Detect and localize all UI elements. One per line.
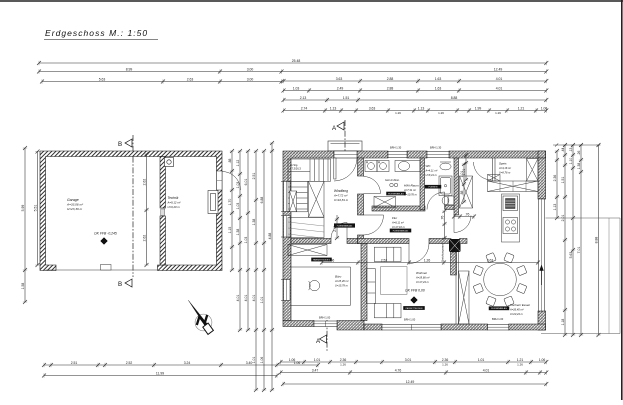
room label technik text: [167, 196, 182, 209]
dimension col right 2.36: [555, 149, 559, 220]
svg-text:1.13: 1.13: [418, 107, 425, 111]
svg-text:BRH 1.30: BRH 1.30: [390, 146, 402, 150]
kitchen island outline: [502, 194, 520, 242]
dimension col mid 4.88: [270, 141, 274, 392]
svg-text:BRH 1.00: BRH 1.00: [492, 317, 504, 321]
svg-text:2.36: 2.36: [442, 358, 449, 362]
stair inner rail rect with X: [290, 191, 297, 212]
svg-text:5.63: 5.63: [569, 252, 573, 259]
svg-text:1.38: 1.38: [236, 229, 240, 236]
svg-text:3.63: 3.63: [487, 259, 494, 263]
terrace outline right side: [541, 218, 620, 334]
post symbol square with circle: [165, 158, 174, 167]
door arc flur to wohnen: [409, 244, 429, 264]
svg-text:3.40: 3.40: [246, 361, 253, 365]
room label garage text: [66, 198, 84, 211]
room label buero text: [334, 275, 349, 288]
technik chimney door leaf rect: [208, 191, 218, 214]
svg-text:Erdgeschoss M.: 1:50: Erdgeschoss M.: 1:50: [45, 28, 148, 38]
washer square 1 hwr: [365, 161, 377, 172]
house exterior walls hatched: [283, 151, 546, 321]
window buero bottom wall: [314, 321, 337, 327]
dimension col mid 6.01: [246, 149, 250, 332]
svg-text:U=9,29 m: U=9,29 m: [168, 205, 181, 209]
svg-text:1.06: 1.06: [541, 107, 548, 111]
wall buero/wohnen vertical: [361, 244, 367, 321]
svg-text:17,3/26,3: 17,3/26,3: [290, 167, 301, 171]
svg-text:5.51: 5.51: [34, 205, 38, 212]
svg-text:12.49: 12.49: [494, 68, 503, 72]
dining table round: [484, 263, 517, 296]
svg-text:.76: .76: [441, 216, 445, 221]
room label speis text: [498, 162, 511, 175]
svg-text:1.21: 1.21: [517, 358, 524, 362]
svg-text:1.21: 1.21: [518, 107, 525, 111]
staircase lower flight treads: [288, 181, 308, 212]
svg-text:FLIESENBELAG: FLIESENBELAG: [491, 307, 507, 310]
svg-text:5.99: 5.99: [21, 205, 25, 212]
room label kochen text: [509, 303, 531, 316]
dimension row bottom-left segments: [42, 363, 320, 367]
dimension row bottom-right 3.47 / 4.76 / 4.01: [279, 370, 549, 374]
svg-text:A=19,66 m²: A=19,66 m²: [415, 276, 430, 280]
floor label windfang black box: [334, 223, 355, 227]
svg-text:1.99: 1.99: [475, 107, 482, 111]
level marker diamond wohnen: [411, 297, 418, 304]
dimension row bottom-right 12.49: [281, 382, 548, 386]
svg-text:1.26: 1.26: [495, 111, 501, 115]
svg-text:PARKETTBODEN: PARKETTBODEN: [406, 307, 423, 310]
svg-text:4.01: 4.01: [244, 295, 248, 302]
window stair left wall: [284, 182, 291, 212]
room label flur text: [391, 216, 406, 229]
svg-text:4.01: 4.01: [496, 77, 503, 81]
svg-text:U=10,76 m: U=10,76 m: [404, 193, 418, 197]
dimension row 8.99 / 3.00 / 12.49: [37, 69, 548, 73]
svg-text:1.06: 1.06: [260, 357, 264, 364]
svg-text:U=17,24 m: U=17,24 m: [416, 280, 430, 284]
svg-text:1.70: 1.70: [228, 199, 232, 206]
wall windfang/buero horizontal with door gap: [291, 239, 358, 244]
dimension row bottom-left 11.99: [42, 373, 279, 377]
svg-text:4.88: 4.88: [268, 233, 272, 240]
dimension row house openings: [282, 108, 549, 112]
section marker B bottom: [118, 279, 132, 288]
svg-text:4.01: 4.01: [252, 295, 256, 302]
staircase upper flight treads: [288, 159, 331, 181]
north arrow: [188, 300, 213, 334]
dimension row house 3.63 / 2.88 / 1.63 / 4.01: [282, 79, 549, 83]
rug wohnen: [381, 267, 408, 295]
dimension col right 7.01: [579, 143, 583, 337]
dimension interior windfang door 2.01: [335, 215, 339, 240]
wall hwr/flur horizontal: [372, 206, 425, 211]
svg-text:.88: .88: [228, 159, 232, 164]
svg-text:7.01: 7.01: [577, 247, 581, 254]
dimension col right 5.63: [571, 143, 575, 337]
double circle symbol hwr: [390, 183, 398, 187]
svg-text:1.12: 1.12: [236, 160, 240, 167]
floor label hwr black box: [386, 192, 406, 196]
svg-text:A=26,40 m²: A=26,40 m²: [509, 308, 524, 312]
svg-text:A=9,12 m²: A=9,12 m²: [167, 201, 182, 205]
text gst abst hwr: [385, 178, 400, 182]
svg-text:2.36: 2.36: [340, 358, 347, 362]
svg-text:2.88: 2.88: [387, 77, 394, 81]
stair landing hatch area: [288, 218, 324, 238]
section marker A bottom: [316, 335, 327, 345]
kitchen fridge hatched block: [503, 196, 518, 211]
room label wohnen text: [415, 271, 430, 284]
kitchen upper run divisions: [500, 181, 526, 192]
svg-text:2.52: 2.52: [126, 361, 133, 365]
shelf speis tall x-hatched: [527, 159, 539, 182]
tv cabinet wohnen/kochen x-hatched: [459, 271, 470, 324]
svg-text:FLIESEN: FLIESEN: [429, 187, 438, 189]
svg-text:1.51: 1.51: [343, 96, 350, 100]
shelf band speis/kitchen x-hatched: [488, 181, 539, 192]
svg-text:1.03: 1.03: [293, 87, 300, 91]
kitchen tall cabinet right of wc x-hatched: [460, 176, 473, 208]
svg-text:6.88: 6.88: [260, 197, 264, 204]
svg-text:12.49: 12.49: [406, 380, 415, 384]
dimension interior flur 76: [442, 209, 446, 240]
svg-text:U=8,76 m: U=8,76 m: [499, 171, 511, 175]
svg-text:1.58: 1.58: [21, 283, 25, 290]
svg-text:4.01: 4.01: [496, 87, 503, 91]
svg-text:HWi-Raum: HWi-Raum: [404, 184, 419, 188]
entrance door frame top wall: [334, 151, 357, 158]
entrance door swing arc windfang: [334, 158, 357, 181]
svg-text:1.03: 1.03: [236, 203, 240, 210]
dimension row total width 25.48: [37, 61, 548, 65]
house bottom wall east segment hatched: [364, 324, 546, 330]
svg-text:A=4,16 m²: A=4,16 m²: [498, 166, 511, 170]
svg-text:8.88: 8.88: [595, 237, 599, 244]
svg-text:3.47: 3.47: [312, 369, 319, 373]
sheet border top: [0, 0, 623, 2]
svg-text:1.03: 1.03: [244, 237, 248, 244]
chimney black block: [449, 239, 461, 252]
partition wohnen/kochen thin: [456, 248, 459, 325]
svg-text:2.62: 2.62: [143, 179, 147, 186]
dining chairs 8 around table: [473, 253, 527, 307]
kitchen stove 4 burners: [503, 218, 518, 234]
sheet border right: [621, 0, 623, 400]
svg-text:3.00: 3.00: [247, 68, 254, 72]
dimension row left 5.63 / 2.63 / 3.00: [40, 79, 284, 83]
corner tick marks top right: [553, 143, 600, 146]
wc shower tray: [439, 176, 452, 196]
svg-text:1.06: 1.06: [289, 358, 296, 362]
svg-text:Büro: Büro: [335, 275, 342, 279]
wall stub right of chimney: [460, 239, 468, 244]
floor label wohnen black box: [403, 306, 425, 310]
window windfang left wall: [284, 216, 291, 238]
speis partition wall with door: [493, 158, 496, 181]
svg-text:A=4,11 m²: A=4,11 m²: [425, 169, 438, 173]
section line A bottom: [326, 320, 328, 352]
garage door post marker: [101, 265, 112, 271]
svg-text:U=23,24 m: U=23,24 m: [510, 312, 524, 316]
svg-text:A=33,06 m²: A=33,06 m²: [66, 203, 84, 207]
room label windfang text: [333, 189, 349, 202]
svg-text:U=17,16 m: U=17,16 m: [392, 225, 406, 229]
garage outer walls hatched: [40, 151, 222, 271]
dimension row house 2.13 / 1.51 / 8.88: [282, 98, 549, 102]
svg-text:1.03: 1.03: [236, 182, 240, 189]
svg-text:1.38: 1.38: [577, 163, 581, 170]
svg-text:1.26: 1.26: [395, 111, 401, 115]
svg-text:2.62: 2.62: [143, 235, 147, 242]
svg-text:25.48: 25.48: [292, 59, 301, 63]
slider direction arrow: [540, 266, 544, 286]
floor label flur black box: [390, 229, 412, 233]
office chair buero: [309, 280, 320, 290]
wall garage/technik with door gap: [160, 157, 166, 266]
svg-text:1.26: 1.26: [340, 363, 346, 367]
level marker diamond garage: [101, 238, 108, 245]
svg-text:6.01: 6.01: [244, 179, 248, 186]
wall flur/wohnen horizontal with door gap: [358, 239, 452, 244]
svg-text:FLIESENBELAG: FLIESENBELAG: [388, 192, 404, 195]
window kochen bottom wall: [488, 325, 509, 331]
svg-text:WC: WC: [426, 164, 432, 168]
svg-text:U=8,41 m: U=8,41 m: [426, 173, 438, 177]
svg-text:Einrichtungswand: Einrichtungswand: [442, 242, 445, 262]
room label wc text: [425, 164, 438, 177]
section marker A top: [332, 122, 344, 132]
wall wc bottom with door gap: [445, 205, 454, 210]
dimension interior kochen door 76: [452, 214, 476, 218]
washer square 2 hwr: [377, 161, 389, 172]
svg-text:OK FFB 0,00: OK FFB 0,00: [405, 289, 425, 293]
svg-text:A=7,72 m²: A=7,72 m²: [333, 194, 348, 198]
svg-text:1.63: 1.63: [435, 87, 442, 91]
door arc hwr: [364, 177, 381, 194]
svg-text:A=7,31 m²: A=7,31 m²: [403, 188, 416, 192]
svg-text:OK FFB -0,245: OK FFB -0,245: [94, 232, 117, 236]
svg-text:1.01: 1.01: [478, 358, 485, 362]
svg-text:2.51: 2.51: [252, 173, 256, 180]
technik exterior door opening east wall: [217, 171, 223, 190]
svg-text:2.51: 2.51: [71, 361, 78, 365]
svg-text:BRH 1.30: BRH 1.30: [430, 146, 442, 150]
svg-text:1.13: 1.13: [330, 107, 337, 111]
stair text 11 Stg: [290, 163, 301, 171]
svg-text:4.01: 4.01: [236, 295, 240, 302]
svg-text:U=23,39 m: U=23,39 m: [67, 207, 83, 211]
dimension interior garage 2.62/2.62: [144, 152, 148, 267]
svg-text:1.01: 1.01: [260, 297, 264, 304]
svg-text:2.88: 2.88: [387, 87, 394, 91]
dimension col left 5.99: [23, 146, 27, 304]
svg-text:BRH 1.00: BRH 1.00: [319, 316, 331, 320]
wall wc right vertical: [454, 158, 459, 215]
svg-text:5.63: 5.63: [99, 78, 106, 82]
svg-text:U=15,79 m: U=15,79 m: [335, 284, 349, 288]
svg-text:1.38: 1.38: [252, 219, 256, 226]
svg-text:2.13: 2.13: [300, 96, 307, 100]
svg-text:Technik: Technik: [168, 196, 179, 200]
svg-text:3.00: 3.00: [247, 78, 254, 82]
svg-text:FLIESENBELAG: FLIESENBELAG: [393, 229, 409, 232]
section line A top: [344, 120, 346, 158]
dimension col right 2.01: [563, 143, 567, 337]
svg-text:3.63: 3.63: [369, 107, 376, 111]
svg-text:1.26: 1.26: [442, 363, 448, 367]
floor label kochen black box: [489, 306, 510, 310]
sofa wohnen L-shape: [367, 269, 402, 318]
window wc top wall: [427, 152, 449, 158]
svg-text:11.99: 11.99: [156, 372, 164, 376]
window sill marks left wall: [281, 182, 284, 301]
window wohnen bottom wall wide: [382, 325, 441, 331]
svg-text:1.15: 1.15: [228, 227, 232, 234]
svg-text:BRH 1.00: BRH 1.00: [404, 318, 416, 322]
window buero left wall: [284, 280, 291, 301]
svg-text:3.24: 3.24: [184, 361, 191, 365]
svg-text:2.01: 2.01: [333, 225, 337, 232]
sink circle hwr: [395, 161, 420, 172]
svg-text:8.88: 8.88: [451, 96, 458, 100]
dimension col mid 6.88: [262, 149, 266, 392]
svg-text:1.06: 1.06: [539, 358, 546, 362]
svg-text:.26: .26: [577, 151, 581, 156]
partition hatched band below chimney: [451, 252, 457, 275]
section line B vertical through garage: [132, 135, 134, 277]
dimension col right 8.88: [596, 143, 600, 337]
door arc flur to kochen: [454, 216, 471, 233]
svg-text:FLIESENBELAG: FLIESENBELAG: [337, 224, 353, 227]
kitchen cabinet upper left x-hatched: [488, 175, 501, 182]
door arc speis: [474, 162, 492, 180]
room label hwr text: [403, 184, 419, 197]
terrace slider door right wall: [539, 199, 545, 311]
wc toilet: [442, 196, 454, 205]
svg-text:Windfang: Windfang: [334, 189, 348, 193]
svg-text:2.49: 2.49: [337, 87, 344, 91]
dimension row bottom-right segments: [279, 360, 549, 364]
staircase lower zone cross: [309, 181, 325, 217]
svg-text:1.06: 1.06: [328, 259, 335, 263]
dimension col left 5.51: [35, 150, 39, 268]
garage door opening bottom edge: [46, 269, 159, 271]
svg-text:1.51: 1.51: [561, 177, 565, 184]
svg-text:.44: .44: [561, 148, 565, 153]
dimension col mid 1.15: [230, 149, 234, 272]
dimension interior speis door 1.01: [464, 153, 468, 182]
svg-text:.88: .88: [460, 191, 464, 196]
svg-text:U=10,81 m: U=10,81 m: [334, 198, 349, 202]
svg-text:8.99: 8.99: [126, 68, 133, 72]
svg-text:4.01: 4.01: [483, 369, 490, 373]
svg-text:3.63: 3.63: [336, 77, 343, 81]
svg-text:1.01: 1.01: [252, 357, 256, 364]
svg-text:B: B: [118, 281, 122, 288]
svg-text:Gst/ A=Abst.: Gst/ A=Abst.: [385, 178, 400, 182]
svg-text:1.13: 1.13: [553, 204, 557, 211]
wc sink oval: [440, 162, 451, 170]
wall windfang/hwr vertical with door gaps: [358, 158, 364, 244]
door arc windfang to flur: [364, 215, 384, 235]
svg-text:1.01: 1.01: [462, 169, 466, 176]
house bottom wall west segment hatched: [283, 321, 364, 331]
dimension col mid 2.51: [254, 149, 258, 392]
floor label buero black box: [311, 258, 332, 262]
svg-text:2.63: 2.63: [187, 78, 194, 82]
svg-text:1.26: 1.26: [438, 111, 444, 115]
svg-text:2.52: 2.52: [381, 259, 388, 263]
entrance porch outline: [328, 141, 362, 151]
svg-text:2.36: 2.36: [553, 175, 557, 182]
svg-text:.76: .76: [465, 213, 470, 217]
svg-text:B: B: [118, 141, 122, 148]
svg-text:A=15,26 m²: A=15,26 m²: [334, 279, 349, 283]
svg-text:Speis: Speis: [499, 162, 507, 166]
svg-text:1.26: 1.26: [424, 259, 431, 263]
wall wc left vertical: [420, 158, 425, 210]
svg-text:.13: .13: [569, 148, 573, 153]
dimension interior wohnen row: [320, 260, 540, 264]
wardrobe buero x-hatched: [288, 245, 327, 256]
floor label wc black box: [425, 185, 442, 189]
dimension row house 1.03 / 2.49: [282, 88, 549, 92]
cabinet hwr x-hatched: [374, 197, 396, 208]
window hwr top wall: [388, 152, 407, 158]
svg-text:2.74: 2.74: [301, 107, 308, 111]
section marker B top: [118, 139, 132, 148]
dimension interior wc 1.01: [462, 162, 466, 204]
svg-text:Garage: Garage: [67, 198, 79, 202]
svg-text:4.76: 4.76: [395, 369, 402, 373]
technik door leaf garage side: [161, 209, 165, 216]
technik door swing arc exterior: [222, 172, 241, 191]
desk buero: [290, 267, 351, 305]
sideboard wohnen: [374, 247, 401, 261]
svg-text:1.26: 1.26: [517, 363, 523, 367]
svg-text:A=8,11 m²: A=8,11 m²: [391, 221, 404, 225]
house right wall hatched with slider opening: [538, 151, 546, 330]
svg-text:3.01: 3.01: [405, 358, 412, 362]
door arc wc: [427, 192, 445, 210]
svg-text:1.10: 1.10: [569, 158, 573, 165]
svg-text:1.01: 1.01: [314, 358, 321, 362]
dimension col mid 1.12: [238, 149, 242, 332]
door arc windfang to buero: [331, 223, 347, 239]
svg-text:11 Stg.: 11 Stg.: [290, 163, 298, 167]
svg-text:1.63: 1.63: [435, 77, 442, 81]
svg-text:1.18: 1.18: [561, 319, 565, 326]
svg-text:Wohnen: Wohnen: [416, 271, 428, 275]
